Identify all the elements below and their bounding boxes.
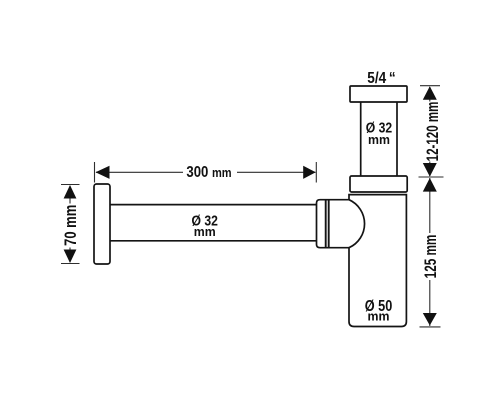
elbow union nut bbox=[317, 200, 350, 248]
svg-text:12-120 mm: 12-120 mm bbox=[424, 102, 443, 162]
svg-text:70 mm: 70 mm bbox=[61, 205, 80, 246]
label 70 mm bbox=[61, 204, 80, 248]
dimension 70 mm bbox=[61, 185, 80, 264]
svg-text:mm: mm bbox=[368, 309, 390, 323]
label diameter 32 horizontal pipe bbox=[192, 213, 218, 240]
dimension 300 mm bbox=[95, 162, 317, 183]
arrow 300 mm right bbox=[303, 166, 316, 179]
upper union nut bbox=[350, 176, 407, 192]
top flange (5/4 inch) bbox=[350, 86, 407, 102]
svg-text:5/4 “: 5/4 “ bbox=[367, 70, 395, 87]
dimension 12-120 mm bbox=[419, 86, 444, 177]
arrow 125 up bbox=[423, 178, 437, 192]
elbow dome bbox=[349, 200, 365, 248]
label diameter 50 body bbox=[365, 298, 393, 324]
label 125 mm bbox=[422, 233, 441, 280]
svg-text:125 mm: 125 mm bbox=[422, 235, 441, 279]
horizontal pipe top wall bbox=[110, 204, 317, 206]
arrow 70 mm up bbox=[64, 185, 77, 199]
arrow 125 down bbox=[423, 313, 437, 326]
label 300 mm bbox=[186, 164, 231, 181]
vertical inlet pipe right wall bbox=[396, 102, 398, 176]
svg-text:mm: mm bbox=[194, 225, 216, 239]
label 12-120 mm bbox=[422, 102, 443, 162]
wall flange (left rosette) bbox=[94, 184, 110, 264]
arrow 12-120 down bbox=[423, 163, 437, 177]
vertical inlet pipe left wall bbox=[360, 102, 362, 176]
dimension 125 mm bbox=[420, 178, 441, 327]
horizontal pipe bottom wall bbox=[110, 240, 317, 242]
arrow 70 mm down bbox=[64, 250, 77, 264]
trap body (cup) bbox=[349, 195, 406, 327]
svg-text:mm: mm bbox=[368, 133, 390, 147]
arrow 12-120 up bbox=[423, 86, 437, 100]
svg-text:300 mm: 300 mm bbox=[186, 164, 231, 181]
elbow nut ring lines bbox=[326, 200, 329, 248]
label diameter 32 vertical pipe bbox=[366, 120, 392, 148]
arrow 300 mm left bbox=[96, 166, 110, 179]
